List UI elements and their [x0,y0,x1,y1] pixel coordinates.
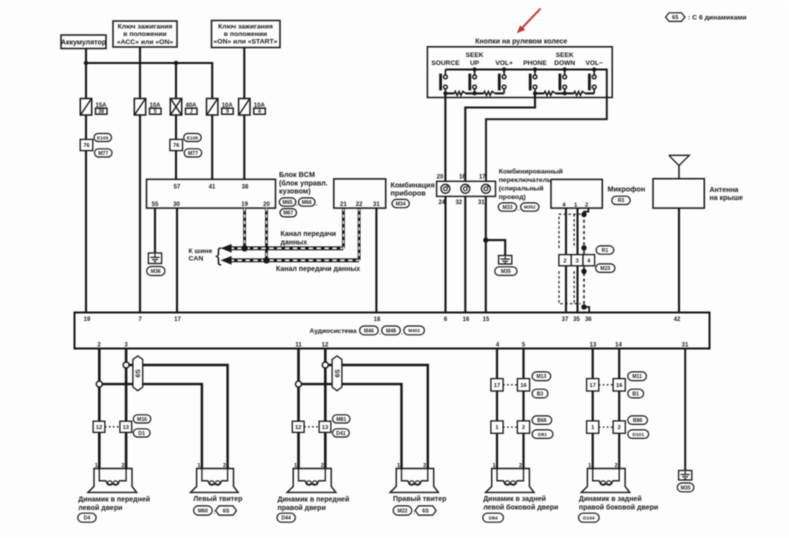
connector label E105 left [94,134,112,142]
power bus wire [86,63,212,99]
svg-text:E105: E105 [187,135,199,141]
inline connector 1 [587,421,599,433]
svg-text:D41: D41 [336,431,346,437]
wire battery to bus [85,49,87,64]
wire mic 4 shielded to audio 37 [565,208,567,312]
svg-text:38: 38 [242,184,249,190]
svg-text:M35: M35 [681,485,691,491]
svg-text:Комбинированный: Комбинированный [499,168,563,176]
svg-text:B3: B3 [537,391,544,397]
svg-text:19: 19 [241,202,248,208]
svg-text:M16: M16 [137,417,147,423]
wire antenna to audio pin 42 [678,208,680,312]
svg-text:B66: B66 [537,418,547,424]
wire fuse 10A-5 to audio pin 7 [139,115,141,313]
speaker pin numbers 1 2 [294,463,324,469]
branch circle on wire x99.3 [96,381,102,387]
rear side door speaker symbol [581,469,630,493]
svg-text:M81: M81 [336,417,346,423]
svg-text:DOWN: DOWN [554,60,575,67]
connector label M77 left [95,149,113,157]
svg-text:2: 2 [522,425,525,431]
speaker pin numbers 1 2 [95,463,125,469]
combination switch spiral cable connector box [437,181,496,196]
svg-text:17: 17 [174,317,181,323]
svg-text:19: 19 [84,317,91,323]
svg-text:К шине: К шине [189,248,213,255]
wire audio pin 31 to ground [684,349,686,471]
branch wire to tweeter pin1 x201.9 [102,384,202,468]
connector label B3 [532,389,548,398]
tweeter labels M22 6S [393,506,436,516]
connector label M11 [628,372,647,381]
wire audio to rear speaker pin1 x592.7 [592,349,594,469]
fusible link 40A J [170,99,197,116]
svg-text:Антенна: Антенна [710,187,739,194]
svg-text:PHONE: PHONE [523,60,547,67]
svg-text:SEEK: SEEK [556,52,574,59]
label Антенна на крыше [710,187,744,202]
inline connector 16 [613,379,625,391]
label Микрофон [608,185,646,194]
label К шине CAN [189,246,223,267]
svg-text:правой боковой двери: правой боковой двери [579,503,658,511]
audio top pin numbers [84,317,681,323]
svg-text:Левый твитер: Левый твитер [193,495,242,503]
svg-text:VOL+: VOL+ [495,60,513,67]
connector label B1 [628,389,644,398]
wire branch to ground M35 [486,240,505,255]
audio bottom pin numbers [97,342,689,348]
svg-text:Микрофон: Микрофон [608,185,646,194]
svg-text:: С 6 динамиками: : С 6 динамиками [688,15,747,22]
hexagon tag 6S [133,356,143,391]
wire mic 2 to shield drain [584,208,588,214]
wire key ACC to fuse 10A-5 [139,47,141,99]
svg-text:16: 16 [520,383,527,389]
ground label M36 [147,267,165,276]
svg-text:36: 36 [585,317,592,323]
connector label M16 [133,415,151,423]
svg-text:Динамик в задней: Динамик в задней [483,495,546,503]
switch VOL- [589,67,596,93]
svg-text:левой боковой двери: левой боковой двери [483,503,558,511]
cluster label Комбинация приборов [391,180,435,197]
wire bus to fuse 40A [175,63,177,99]
connector label R1 [596,246,614,254]
svg-text:E105: E105 [97,135,109,141]
svg-text:M77: M77 [188,151,198,157]
connector dotted link lower [503,426,517,428]
svg-text:6S: 6S [334,369,341,378]
svg-text:«ON» или «START»: «ON» или «START» [214,39,278,46]
svg-text:правой двери: правой двери [278,504,326,512]
junction dot spiral ground branch [483,238,488,243]
svg-text:M22: M22 [397,508,407,514]
resistor SEEKDOWN-VOL- [565,91,595,95]
connector dotted link upper [503,384,517,386]
front door speaker symbol [88,469,137,493]
fuse 15A 38 [80,99,107,116]
CAN wire cluster 22 [358,208,361,260]
rear side door speaker symbol [486,469,534,493]
svg-text:16: 16 [459,175,466,181]
tweeter speaker symbol [191,469,239,493]
switch labels SOURCE SEEK UP VOL+ PHONE SEEK DOWN VOL- [431,52,603,67]
inline connector 2 [517,421,529,433]
resistor PHONE-SEEKDOWN [535,91,565,95]
connector 76 left [80,139,93,150]
connector dotted link upper [599,384,613,386]
svg-text:20: 20 [437,175,444,181]
svg-text:Канал передачи данных: Канал передачи данных [276,266,360,273]
junction dot CAN upper BCM19 [241,245,247,251]
tweeter speaker symbol [390,469,438,493]
svg-text:6S: 6S [422,509,429,515]
svg-text:M46: M46 [364,328,374,334]
svg-text:11: 11 [295,342,302,348]
svg-text:«АСС» или «ON»: «АСС» или «ON» [117,39,174,46]
svg-text:6S: 6S [223,509,230,515]
svg-text:кузовом): кузовом) [279,187,311,196]
wire switch common and VOL- to spiral 17 [445,70,606,182]
microphone pin numbers 4 1 2 [562,202,588,208]
switch SOURCE [441,70,448,94]
CAN bus line upper [221,244,344,253]
inline connector 12 [93,421,105,432]
svg-text:31: 31 [478,200,485,206]
svg-text:37: 37 [562,317,569,323]
rear speaker pin numbers 1 2 [588,463,618,469]
label Динамик в задней правой боковой двери [579,495,658,511]
svg-text:Динамик в передней: Динамик в передней [78,495,150,503]
ground label M35 middle [495,267,517,276]
svg-text:провод): провод) [499,194,526,201]
resistor SEEKUP-VOL+ [475,91,505,95]
svg-text:42: 42 [674,317,681,323]
svg-text:VOL−: VOL− [585,60,603,67]
CAN bus line lower [221,256,360,265]
wire bus to fuse 15A [85,63,87,99]
label Динамик в передней правой двери [278,495,350,512]
tweeter labels M60 6S [194,506,237,516]
wire fuse 10A-9 to BCM pin 41 [211,115,213,179]
label Комбинированный переключатель [499,168,563,201]
svg-text:SOURCE: SOURCE [431,60,460,67]
svg-text:D44: D44 [281,516,291,522]
ground symbol M35 middle [499,256,512,265]
junction dot drain below connector [581,269,586,274]
svg-text:R1: R1 [602,248,609,254]
svg-text:M35: M35 [501,269,511,275]
microphone label R3 [612,196,630,204]
svg-text:55: 55 [152,202,159,208]
svg-text:18: 18 [374,317,381,323]
svg-text:6S: 6S [672,15,679,21]
instrument cluster box Комбинация приборов [334,179,386,208]
CAN wire BCM 19 [243,208,246,248]
inline connector 1 [491,421,503,433]
inline connector 17 [491,379,503,391]
svg-text:переключатель: переключатель [499,177,552,184]
switch PHONE [530,67,537,93]
drain stub below connector [583,266,585,269]
svg-text:D104: D104 [583,515,595,521]
svg-text:CAN: CAN [189,256,204,263]
switch SEEK DOWN [560,67,567,93]
connector label M23 [596,264,615,273]
rear speaker label D84 [483,513,504,522]
battery box Аккумулятор [61,35,106,49]
wire spiral 32 to audio pin 16 [464,196,466,312]
junction dots switch bottoms [443,91,566,95]
svg-text:Канал передачи: Канал передачи [281,231,337,238]
front door speaker symbol [287,469,336,493]
ground symbol M36 [148,253,161,264]
svg-text:35: 35 [573,317,580,323]
tweeter pin numbers 1 2 [197,463,226,469]
svg-text:J: J [190,109,193,115]
shield upper dashed box [559,214,581,248]
wire key START to fuse 10A-4 [243,48,245,99]
svg-text:Кнопки на рулевом колесе: Кнопки на рулевом колесе [475,39,567,46]
svg-text:UP: UP [470,60,480,67]
wire audio to rear speaker pin2 x619.2 [618,349,620,469]
shield lower dashed box [559,271,581,303]
svg-text:M67: M67 [283,211,293,217]
svg-text:31: 31 [682,342,689,348]
ignition key ACC/ON box [113,21,177,47]
connector label M81 [333,415,351,423]
svg-text:2: 2 [618,425,621,431]
branch wire to tweeter pin2 x427.8 [328,365,428,469]
ignition key ON/START box [212,21,281,48]
speaker label D44 [277,513,295,522]
svg-text:15: 15 [483,317,490,323]
svg-text:Динамик в передней: Динамик в передней [278,495,350,503]
audio label Аудиосистема M46 M48 M402 [310,326,425,336]
spiral cable pin numbers [437,175,487,206]
svg-text:M13: M13 [536,374,546,380]
BCM connector labels M65 M66 [279,198,318,208]
antenna box [653,179,704,208]
wire audio to speaker pin2 x325.3 [324,349,327,469]
svg-text:12: 12 [295,425,301,431]
spiral cable labels M33 M352 [498,203,539,213]
wire BCM 55 to ground [154,208,156,253]
branch circle on wire x325.3 [322,362,328,368]
svg-text:Динамик в задней: Динамик в задней [579,495,642,503]
svg-text:13: 13 [322,425,329,431]
svg-text:20: 20 [263,202,270,208]
svg-text:M23: M23 [600,266,610,272]
svg-text:Аудиосистема: Аудиосистема [310,328,357,335]
inline connector 12 [292,421,304,432]
fuse 10A 4 [239,99,266,116]
wire fuse 15A to audio pin 19 [85,115,87,313]
switch SEEK UP [470,67,477,93]
wire fuse 40A to BCM pin 57 [175,115,177,179]
CAN wire BCM 20 [265,208,268,260]
connector label D81 [532,430,553,439]
svg-text:Правый твитер: Правый твитер [393,495,446,503]
audio system box [75,313,710,349]
switch VOL+ [499,67,506,93]
wire audio to rear speaker pin1 x497.0 [496,349,498,469]
BCM body control module box [147,179,276,208]
svg-text:(спиральный: (спиральный [499,184,544,192]
legend 6S С 6 динамиками [666,13,747,22]
svg-text:17: 17 [494,383,500,389]
wire spiral 24 to audio pin 6 [444,196,446,312]
svg-text:4: 4 [258,109,261,115]
wire mic 1 to audio 35 [576,208,578,312]
CAN wire cluster 21 [342,208,345,248]
label Динамик в задней левой боковой двери [483,495,558,511]
svg-text:M402: M402 [408,328,420,333]
ground symbol M35 right [679,471,692,481]
svg-text:5: 5 [154,109,157,115]
ground label M35 right [677,483,694,492]
branch circle on wire x298.5 [296,381,302,387]
svg-text:41: 41 [209,184,216,190]
svg-text:в положении: в положении [224,31,267,38]
svg-text:в положении: в положении [123,31,166,38]
wire audio to speaker pin2 x126.1 [125,349,128,469]
inline connector 16 [517,379,529,391]
wire spiral 31 to audio pin 15 [485,196,487,312]
microphone box [551,179,602,208]
antenna symbol [669,155,690,178]
svg-text:2: 2 [563,258,566,264]
junction dot CAN lower BCM20 [263,257,269,263]
connector dotted link lower [599,426,613,428]
svg-text:D101: D101 [632,432,644,438]
svg-text:57: 57 [174,184,181,190]
svg-text:76: 76 [83,143,89,149]
svg-text:на крыше: на крыше [710,195,744,202]
rear speaker pin numbers 1 2 [492,463,522,469]
connector 76 right [170,139,183,150]
svg-text:16: 16 [463,317,470,323]
wire SOURCE to spiral pin 20 [444,93,446,181]
svg-text:17: 17 [479,175,486,181]
svg-text:M36: M36 [151,269,161,275]
svg-text:M34: M34 [396,201,406,207]
svg-text:D81: D81 [538,432,547,438]
steering wheel buttons box [427,47,612,98]
svg-text:M48: M48 [386,328,396,334]
inline connector 13 [319,421,331,432]
svg-text:13: 13 [590,342,597,348]
svg-text:B86: B86 [633,418,643,424]
svg-text:B1: B1 [632,391,639,397]
wire fuse 10A-4 to BCM pin 38 [243,115,245,179]
hexagon tag 6S [332,356,342,391]
svg-text:17: 17 [589,383,595,389]
svg-text:M11: M11 [632,374,642,380]
svg-text:9: 9 [226,109,229,115]
svg-text:30: 30 [173,202,180,208]
branch circle on wire x126.1 [123,362,129,368]
branch wire to tweeter pin2 x227.6 [129,365,228,469]
svg-text:21: 21 [340,202,347,208]
svg-text:{: { [215,246,222,267]
svg-text:D84: D84 [489,515,498,521]
junction dot drain bottom [581,304,586,309]
connector label E105 right [184,134,202,142]
label Левый твитер [193,495,242,503]
connector label B66 [532,416,552,425]
svg-text:2: 2 [585,202,588,208]
label Канал передачи данных lower [276,266,360,273]
shield drain wire lower [583,273,585,305]
resistor SOURCE-SEEKUP [445,91,474,95]
junction dot drain above connector [581,245,586,250]
tweeter pin numbers 1 2 [397,463,426,469]
fuse 10A 9 [207,99,234,116]
svg-text:приборов: приборов [391,189,427,198]
svg-text:данных: данных [281,239,308,246]
svg-text:левой двери: левой двери [78,504,122,512]
BCM label Блок BCM [279,170,328,196]
wire audio to speaker pin1 x298.5 [297,349,300,469]
wire BCM 30 to audio pin 17 [176,208,178,312]
connector label D1 [133,429,150,437]
svg-text:32: 32 [455,200,462,206]
inline connector 17 [587,379,599,391]
BCM connector label M67 [280,209,297,217]
connector label M77 right [184,149,202,157]
svg-text:12: 12 [322,342,329,348]
label Динамик в передней левой двери [78,495,150,512]
rear speaker label D104 [579,513,600,522]
wire PHONE to spiral pin 16 [465,93,535,181]
svg-text:Ключ зажигания: Ключ зажигания [218,23,273,30]
connector label B86 [628,416,648,425]
label Кнопки на рулевом колесе [475,39,567,46]
speaker label D4 [78,513,96,522]
wire audio to rear speaker pin2 x523.5 [522,349,524,469]
svg-text:22: 22 [356,202,363,208]
svg-text:Аккумулятор: Аккумулятор [61,39,106,46]
svg-text:16: 16 [616,383,623,389]
drain stub into connector [583,251,585,255]
svg-text:13: 13 [123,425,130,431]
svg-text:12: 12 [96,425,102,431]
svg-text:D1: D1 [138,431,145,437]
connector label D101 [628,430,649,439]
red arrow pointer [517,9,541,34]
drain jog to audio pin 36 [584,307,589,313]
svg-text:M352: M352 [524,205,536,210]
label Правый твитер [393,495,446,503]
cluster connector label M34 [392,199,409,207]
junction dot drain top [581,212,586,217]
connector dotted link [105,426,120,428]
label Канал передачи данных upper [281,231,337,246]
svg-text:M77: M77 [98,151,108,157]
svg-text:38: 38 [98,109,104,115]
inline connector 13 [120,421,132,432]
svg-text:14: 14 [615,342,622,348]
svg-text:76: 76 [173,143,179,149]
svg-text:6S: 6S [135,369,142,378]
connector dotted link [304,426,319,428]
wire audio to speaker pin1 x99.3 [98,349,101,469]
svg-text:31: 31 [373,202,380,208]
connector label D41 [333,429,350,437]
